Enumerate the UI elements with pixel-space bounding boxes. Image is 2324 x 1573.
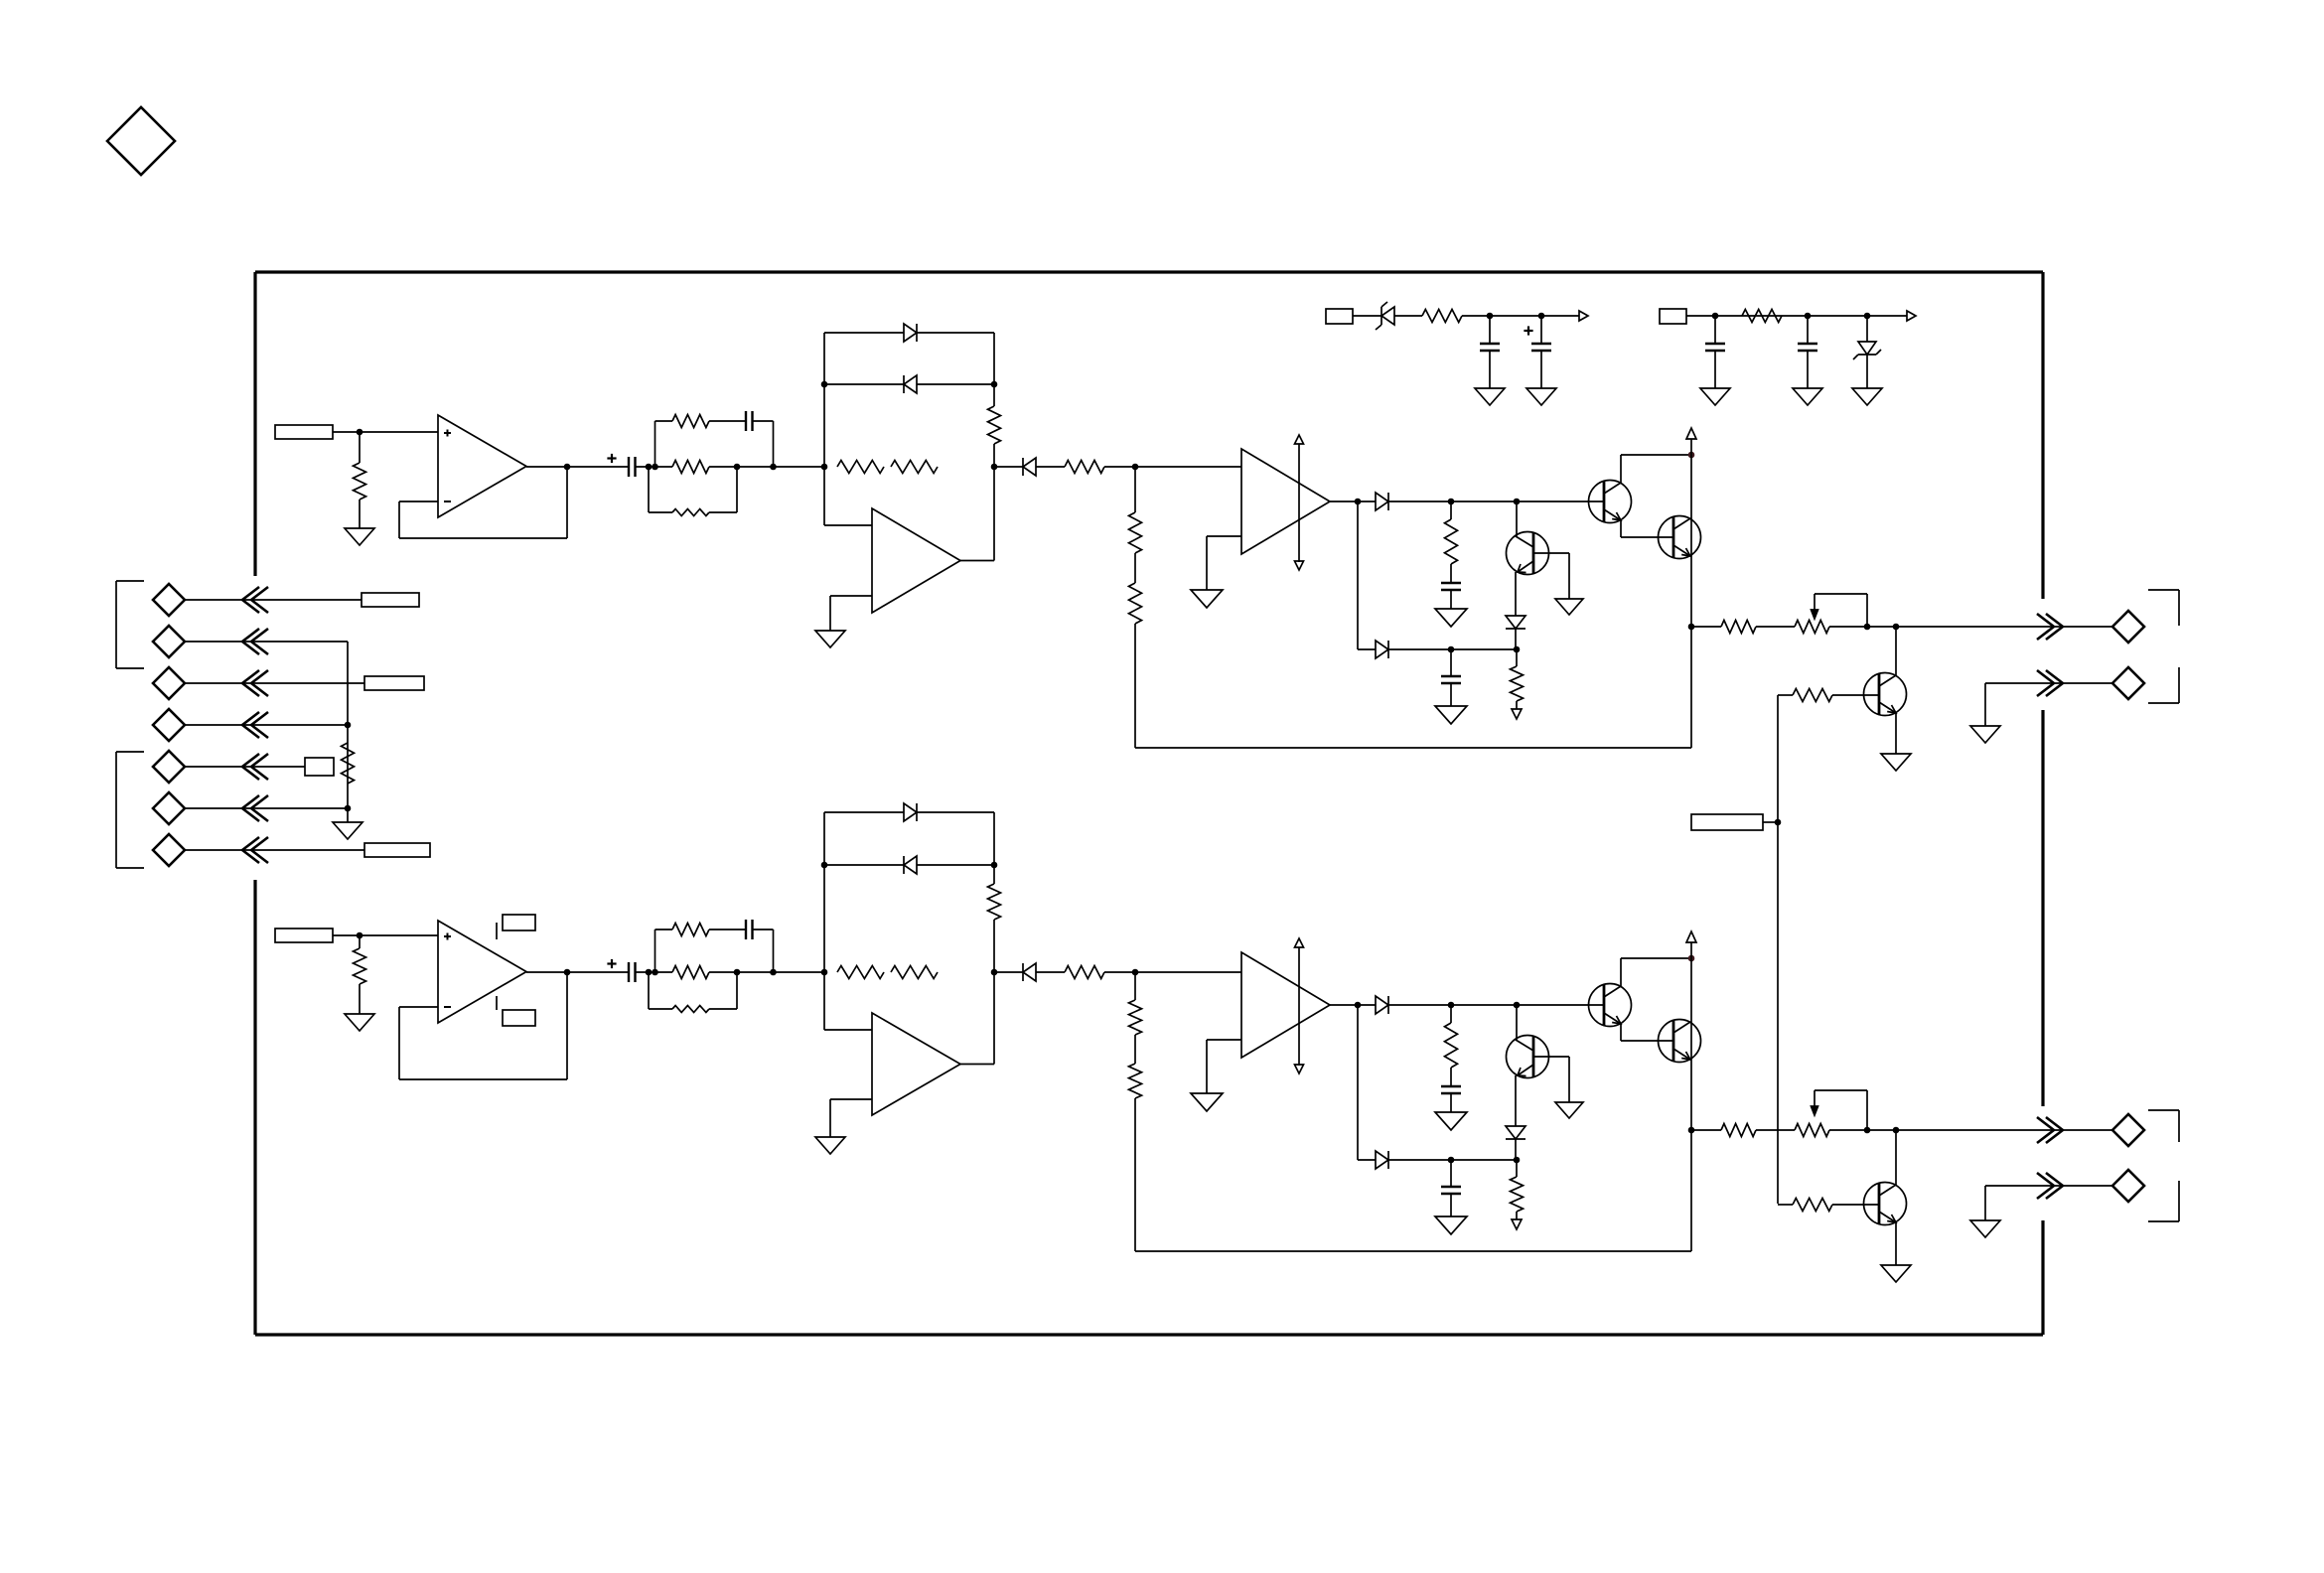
transistor Q2 B (1659, 1020, 1701, 1063)
resistor R10 A (1445, 519, 1458, 564)
wire divider (1134, 467, 1136, 512)
wire row7 (185, 849, 364, 851)
node net left b (652, 464, 658, 471)
op-amp U1 A (438, 415, 526, 517)
node out tap (1893, 624, 1900, 631)
capacitor C7 A (1441, 676, 1461, 683)
power arrow V- U3 (1295, 1065, 1304, 1073)
wire U2 +in (824, 524, 872, 526)
node net right (770, 464, 777, 471)
net label box row3 (364, 676, 424, 690)
node row4 (345, 722, 352, 729)
resistor R12 A (1721, 621, 1756, 634)
wire (994, 971, 1023, 973)
wire lower branch (1358, 501, 1376, 649)
wire row2 (1985, 1186, 2112, 1220)
node main right (991, 464, 998, 471)
wire (1714, 316, 1716, 344)
wire (1134, 624, 1136, 748)
wire (1829, 626, 2112, 628)
resistor Rn1 B (672, 924, 709, 936)
node pot (1864, 1127, 1871, 1134)
connector pin P3 (diamond) (153, 667, 185, 699)
wire bus vertical (347, 642, 349, 808)
wire (709, 972, 737, 1009)
wire block right vertical (993, 812, 995, 1065)
op-amp U2 B (872, 1013, 960, 1115)
node net left b (652, 969, 658, 976)
wire (1450, 501, 1452, 519)
capacitor C1 A polarized (607, 454, 635, 477)
capacitor Cn B (746, 920, 753, 939)
wire Qo emitter (1895, 713, 1897, 754)
wire (1691, 626, 1721, 628)
wire U2 -in (830, 596, 872, 631)
wire cap1 (1489, 316, 1491, 344)
node input (357, 429, 363, 436)
wire row2 (185, 641, 348, 643)
node (1487, 313, 1494, 320)
resistor Rn2 B (672, 966, 709, 979)
ground (1435, 1112, 1467, 1130)
ground U3 (1191, 1093, 1223, 1111)
wire (1388, 1004, 1604, 1006)
power arrow V+ U3 (1295, 435, 1304, 562)
wire (1515, 629, 1517, 649)
ground (1435, 609, 1467, 627)
node U1 out (564, 969, 571, 976)
wire (1450, 649, 1452, 676)
wire (1540, 351, 1542, 388)
wire (359, 432, 361, 463)
node (1712, 313, 1719, 320)
wire row3 (185, 682, 364, 684)
capacitor C2 (1480, 344, 1500, 351)
diode D1 B (904, 803, 917, 821)
value box U1 top (497, 915, 535, 939)
wire output U1 (526, 466, 629, 468)
connector pin P2 (diamond) (153, 626, 185, 657)
wire (1516, 1160, 1518, 1177)
node net left a (646, 969, 653, 976)
wire row5 (185, 766, 305, 768)
wire (359, 935, 361, 948)
wire (994, 466, 1023, 468)
wire (709, 420, 746, 422)
wire (1807, 351, 1809, 388)
resistor R6 A (891, 461, 938, 474)
wire (1489, 351, 1491, 388)
ground arrow (1512, 709, 1522, 719)
transistor Q4 B (1864, 1183, 1907, 1225)
wire (709, 929, 746, 930)
node (1538, 313, 1545, 320)
output chevron row2 B (2037, 1173, 2063, 1199)
power arrow V- U3 (1295, 561, 1304, 570)
node (1514, 1002, 1521, 1009)
op-amp U3 B (1241, 952, 1330, 1058)
output connector diamond row2 A (2112, 667, 2144, 699)
ground Qo (1881, 1265, 1911, 1282)
ground U2 (815, 631, 845, 647)
node (1864, 313, 1871, 320)
wire feedback bottom (1135, 747, 1691, 749)
power arrow rail (1686, 428, 1696, 439)
ground Q3 (1555, 1102, 1583, 1118)
resistor R9 A (1129, 583, 1142, 624)
bracket group 2 (116, 752, 144, 868)
resistor Rb A (988, 406, 1001, 444)
wire (636, 971, 673, 973)
resistor R13 A (1793, 689, 1832, 702)
node row6 (345, 805, 352, 812)
wire U2 out (960, 1064, 994, 1066)
wire U2 +in (824, 1029, 872, 1031)
wire (359, 500, 361, 528)
node block left (821, 464, 828, 471)
node (1805, 313, 1812, 320)
wire (1450, 1160, 1452, 1187)
resistor R10 B (1445, 1023, 1458, 1068)
wire rail (1353, 315, 1381, 317)
output chevron row1 B (2037, 1117, 2063, 1143)
wire (753, 421, 774, 467)
wire (1756, 626, 1795, 628)
ground arrow (1512, 1219, 1522, 1229)
capacitor C4 (1705, 344, 1725, 351)
node out tap (1893, 1127, 1900, 1134)
node feedback tap (1132, 969, 1139, 976)
wire Q1-Q2 (1621, 1024, 1673, 1041)
ground Qo (1881, 754, 1911, 771)
bus entry chevron row 7 (242, 837, 268, 863)
bus entry chevron row 1 (242, 587, 268, 613)
bus entry chevron row 4 (242, 712, 268, 738)
wire Q3 collector (1568, 1057, 1570, 1102)
wire Qo base (1778, 1204, 1879, 1206)
node block left (821, 969, 828, 976)
node (1448, 1157, 1455, 1164)
resistor R9 B (1129, 1064, 1142, 1098)
resistor Rn3 A (672, 509, 709, 516)
diode D6 B (1506, 1126, 1525, 1139)
resistor R11 A (1511, 666, 1524, 701)
wire Qo collector (1895, 627, 1897, 675)
capacitor C1 B polarized (607, 959, 635, 982)
node (1448, 499, 1455, 505)
output connector diamond row2 B (2112, 1170, 2144, 1202)
node input (357, 932, 363, 939)
wire (1714, 351, 1716, 388)
wire feedback bottom (1135, 1250, 1691, 1252)
wire lower branch (1358, 1005, 1376, 1160)
wire Q3 emitter (1515, 572, 1517, 616)
output bracket A (2148, 590, 2179, 703)
connector pin P7 (diamond) (153, 834, 185, 866)
wire (1388, 500, 1604, 502)
wire (1388, 1159, 1517, 1161)
node main right (991, 969, 998, 976)
op-amp U1 B (438, 921, 526, 1023)
node (821, 381, 828, 388)
node U3 out (1355, 1002, 1362, 1009)
wire (1450, 564, 1452, 583)
wire net top riser (655, 421, 673, 467)
wire (1450, 1068, 1452, 1086)
resistor R8 A (1129, 512, 1142, 553)
diode D2 B (904, 856, 917, 874)
node (991, 381, 998, 388)
diode D5 A (1376, 641, 1388, 658)
ground U3 (1191, 590, 1223, 608)
power net box VIN+ (1326, 309, 1353, 324)
connector pin P1 (diamond) (153, 584, 185, 616)
node (1514, 646, 1521, 653)
wire block right vertical (993, 333, 995, 561)
node (1514, 499, 1521, 505)
wire row2 (1985, 683, 2112, 726)
transistor Q3 B (1507, 1036, 1570, 1078)
net label box row1 (362, 593, 419, 607)
diode D3 B (1023, 963, 1036, 981)
op-amp U3 A (1241, 449, 1330, 554)
wire U3 out (1330, 500, 1376, 502)
diode D2 A (904, 375, 917, 393)
node (991, 862, 998, 869)
output chevron row1 A (2037, 614, 2063, 640)
wire row4 (185, 724, 348, 726)
wire input (333, 431, 438, 433)
wire (1515, 1139, 1517, 1160)
wire (709, 466, 824, 468)
node rail (1688, 452, 1695, 459)
wire Q3 base (1516, 1005, 1518, 1040)
wire (1450, 1005, 1452, 1023)
resistor R5 B (837, 966, 884, 979)
wire (1450, 1194, 1452, 1216)
wire (1756, 1129, 1795, 1131)
potentiometer VR1 A (1795, 594, 1867, 634)
output chevron row2 A (2037, 670, 2063, 696)
wire net bottom riser (649, 972, 672, 1009)
node rail (1688, 955, 1695, 962)
zener diode Z1 (1376, 302, 1394, 330)
capacitor C6 A (1441, 583, 1461, 590)
wire (1104, 971, 1241, 973)
capacitor C7 B (1441, 1187, 1461, 1194)
resistor Rin A (354, 463, 366, 500)
node net mid (734, 464, 741, 471)
wire U3 out (1330, 1004, 1376, 1006)
wire (1450, 590, 1452, 609)
node U3 out (1355, 499, 1362, 505)
wire (1388, 648, 1517, 650)
diode D4 A (1376, 493, 1388, 510)
resistor R7 A (1065, 461, 1104, 474)
node feedback tap (1132, 464, 1139, 471)
wire (1763, 821, 1778, 823)
wire (636, 466, 673, 468)
wire (359, 984, 361, 1014)
net label box input A (275, 425, 333, 439)
node net mid (734, 969, 741, 976)
wire (1516, 701, 1518, 709)
resistor R18 (1422, 310, 1462, 323)
wire (1036, 971, 1065, 973)
wire rail2 (1686, 315, 1907, 317)
resistor Rn2 A (672, 461, 709, 474)
power arrow rail (1686, 931, 1696, 942)
resistor Rn3 B (672, 1006, 709, 1013)
wire (1516, 1212, 1518, 1219)
ground (1526, 388, 1556, 405)
ground (1475, 388, 1505, 405)
wire (1807, 316, 1809, 344)
net label box bias (1691, 814, 1763, 830)
wire (753, 929, 774, 972)
node net right (770, 969, 777, 976)
resistor R19 (1742, 310, 1782, 323)
resistor R12 B (1721, 1124, 1756, 1137)
power arrow V+ U3 (1295, 938, 1304, 1066)
wire (709, 971, 824, 973)
node output (1688, 624, 1695, 631)
resistor Rb B (988, 884, 1001, 920)
node bias (1775, 819, 1782, 826)
wire (1104, 466, 1241, 468)
wire output U1 (526, 971, 629, 973)
wire (1866, 355, 1868, 388)
wire (1134, 553, 1136, 583)
wire Q3 collector (1568, 553, 1570, 599)
wire (1394, 315, 1422, 317)
wire Qo collector (1895, 1130, 1897, 1185)
wire row1 (185, 599, 362, 601)
wire feedback (399, 467, 567, 538)
wire U2 out (960, 560, 994, 562)
ground (1435, 1216, 1467, 1234)
wire bias vertical (1777, 695, 1779, 1204)
resistor R17 (342, 743, 355, 784)
wire (1450, 683, 1452, 706)
diode D5 B (1376, 1151, 1388, 1169)
wire U3 -in (1207, 1040, 1241, 1093)
wire (1036, 466, 1065, 468)
wire Q1 collector (1621, 455, 1691, 483)
power arrow out (1579, 311, 1588, 321)
capacitor C5 (1798, 344, 1817, 351)
wire (1134, 1098, 1136, 1251)
output connector diamond row1 B (2112, 1114, 2144, 1146)
net label box row7 (364, 843, 430, 857)
wire Q3 base (1516, 501, 1518, 536)
wire diode1 row (824, 811, 994, 813)
node net left a (646, 464, 653, 471)
ground input (345, 1014, 374, 1031)
ground (1852, 388, 1882, 405)
wire (1866, 316, 1868, 342)
ground conn (333, 822, 363, 839)
ground U2 (815, 1137, 845, 1154)
ground (1793, 388, 1822, 405)
resistor R6 B (891, 966, 938, 979)
capacitor C6 B (1441, 1086, 1461, 1093)
node output (1688, 1127, 1695, 1134)
ground row2 (1970, 726, 2000, 743)
wire U2 -in (830, 1099, 872, 1137)
bus entry chevron row 2 (242, 629, 268, 654)
wire Q3 emitter (1515, 1075, 1517, 1126)
diode D4 B (1376, 996, 1388, 1014)
transistor Q1 A (1589, 481, 1632, 523)
diode D3 A (1023, 458, 1036, 476)
ground (1700, 388, 1730, 405)
resistor R7 B (1065, 966, 1104, 979)
resistor Rin B (354, 948, 366, 984)
node (1448, 1002, 1455, 1009)
wire rail (1690, 942, 1692, 1251)
connector pin P6 (diamond) (153, 792, 185, 824)
wire Qo base (1778, 694, 1879, 696)
wire Qo emitter (1895, 1222, 1897, 1265)
net label box input B (275, 929, 333, 942)
node (1448, 646, 1455, 653)
node U1 out (564, 464, 571, 471)
zener diode Z2 (1853, 342, 1881, 359)
connector pin P5 (diamond) (153, 751, 185, 783)
node pot (1864, 624, 1871, 631)
wire (1829, 1129, 2112, 1131)
connector pin P4 (diamond) (153, 709, 185, 741)
wire divider (1134, 972, 1136, 1000)
transistor Q4 A (1864, 673, 1907, 716)
bus entry chevron row 5 (242, 754, 268, 780)
value box row5 (305, 758, 334, 776)
bracket group 1 (116, 581, 144, 668)
diode D1 A (904, 324, 917, 342)
wire net bottom riser (649, 467, 672, 512)
transistor Q2 A (1659, 516, 1701, 559)
capacitor Cn A (746, 411, 753, 431)
power net box VIN- (1660, 309, 1686, 324)
wire Q1-Q2 (1621, 520, 1673, 537)
resistor R13 B (1793, 1199, 1832, 1212)
op-amp U2 A (872, 508, 960, 613)
wire (1462, 315, 1579, 317)
wire cap2 (1540, 316, 1542, 344)
transistor Q3 A (1507, 532, 1570, 575)
wire Q1 collector (1621, 958, 1691, 986)
wire diode2 row (824, 864, 994, 866)
wire to ground (347, 808, 349, 822)
wire (1691, 1129, 1721, 1131)
transistor Q1 B (1589, 984, 1632, 1027)
ground Q3 (1555, 599, 1583, 615)
wire row6 (185, 807, 348, 809)
resistor R11 B (1511, 1177, 1524, 1212)
node (1514, 1157, 1521, 1164)
power arrow out2 (1907, 311, 1916, 321)
node (821, 862, 828, 869)
bus entry chevron row 3 (242, 670, 268, 696)
wire block left vertical (823, 812, 825, 1030)
resistor R5 A (837, 461, 884, 474)
wire rail (1690, 439, 1692, 748)
bus entry chevron row 6 (242, 795, 268, 821)
wire block left vertical (823, 333, 825, 525)
wire feedback (399, 972, 567, 1079)
revision diamond (107, 107, 175, 175)
